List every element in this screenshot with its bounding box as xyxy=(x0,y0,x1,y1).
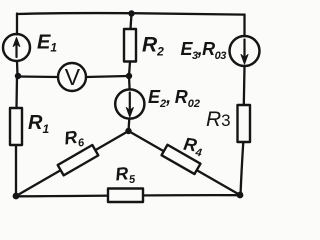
node top junction xyxy=(128,10,134,16)
current source E2 arrowhead xyxy=(126,108,133,118)
wire R2 to node B xyxy=(129,62,130,77)
wire right rail upper (corner to E3 top) xyxy=(243,15,245,37)
current source E3 arrow xyxy=(243,40,245,57)
voltmeter V xyxy=(58,63,86,91)
current source E1 arrowhead xyxy=(13,38,20,47)
node B (above E2) xyxy=(126,73,132,79)
wire node A to voltmeter xyxy=(18,75,58,78)
wire voltmeter to node B xyxy=(86,76,129,77)
wire node B to E2 xyxy=(128,76,131,90)
wire E2 to node C xyxy=(127,119,130,131)
svg-text:R3: R3 xyxy=(206,108,231,131)
resistor R5 xyxy=(108,189,143,203)
current source E3 xyxy=(230,36,260,66)
wire left rail upper (corner to E1 top) xyxy=(16,14,18,35)
wire top rail xyxy=(17,13,245,15)
wire top node down to R2 xyxy=(131,14,132,30)
current source E3 arrowhead xyxy=(241,55,248,65)
current source E1 xyxy=(3,34,30,61)
wire R3 to bottom-right node xyxy=(241,142,244,195)
resistor R3 xyxy=(238,105,251,142)
wire diagonal node C to bottom-right (R4 branch) xyxy=(129,131,241,195)
resistor R1 xyxy=(10,108,22,145)
wire E1 bottom to node A xyxy=(16,61,19,76)
wire node A down to R1 xyxy=(15,76,18,108)
node A (left) xyxy=(15,73,21,79)
node bottom-left xyxy=(13,193,20,200)
wire diagonal node C to bottom-left (R6 branch) xyxy=(16,131,129,196)
current source E2 arrow xyxy=(129,93,131,110)
node C (below E2) xyxy=(125,128,131,134)
resistor R4 xyxy=(162,145,201,174)
background paper xyxy=(0,0,262,209)
resistor R2 xyxy=(124,29,136,62)
node bottom-right xyxy=(237,192,244,199)
wire E3 to R3 xyxy=(243,66,246,105)
wire bottom rail xyxy=(16,195,240,196)
wire R1 to bottom-left node xyxy=(15,145,17,196)
current source E1 arrow xyxy=(15,42,17,57)
resistor R6 xyxy=(58,145,99,175)
current source E2 xyxy=(115,89,144,118)
svg-text:V: V xyxy=(65,64,81,90)
